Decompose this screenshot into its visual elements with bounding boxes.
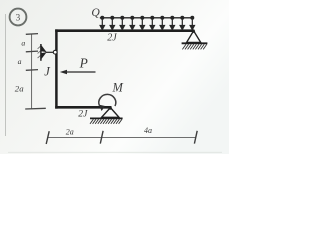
wall line [40, 44, 42, 61]
link rod [46, 51, 54, 53]
tick at beam level [26, 33, 38, 36]
slash tick middle [100, 131, 103, 144]
faint page rule bottom [8, 151, 222, 153]
dimension line: bottom horizontal [46, 126, 197, 144]
tick at P level [26, 69, 38, 72]
svg-text:2J: 2J [107, 32, 117, 43]
link triangle (sideways) [41, 45, 46, 52]
ground line [182, 42, 208, 44]
slash tick right [194, 131, 197, 144]
ground line [90, 117, 123, 119]
hinge circle [53, 50, 57, 54]
support: left wall link (pendulum) [38, 44, 58, 61]
ground hatching [182, 44, 206, 49]
distributed load q: top line [100, 17, 194, 19]
force P arrow [60, 70, 96, 75]
svg-text:P: P [79, 56, 88, 71]
member: top beam [55, 29, 194, 32]
support: right pin at beam end [182, 30, 208, 50]
member: bottom beam [55, 106, 111, 109]
svg-text:M: M [112, 80, 124, 94]
moment M arc [99, 94, 116, 111]
svg-text:4a: 4a [144, 126, 152, 135]
member: left column [55, 29, 58, 108]
dimension line: left vertical [15, 34, 46, 109]
svg-text:2J: 2J [78, 108, 88, 119]
tick at link level [26, 50, 38, 53]
svg-text:3: 3 [16, 12, 21, 22]
svg-text:Q: Q [91, 6, 100, 19]
ground hatching [90, 119, 122, 124]
svg-text:a: a [18, 57, 22, 66]
faint page rule left [5, 14, 7, 136]
wall hatching [38, 46, 41, 58]
tick at bottom beam level [25, 107, 46, 110]
variant number badge (3) [10, 9, 27, 26]
svg-text:a: a [21, 39, 25, 48]
svg-text:2a: 2a [66, 127, 74, 136]
slash tick left [46, 131, 49, 144]
support: middle pin under bottom beam [90, 107, 123, 124]
svg-text:2a: 2a [15, 84, 24, 94]
distributed load q: arrows [100, 16, 194, 29]
